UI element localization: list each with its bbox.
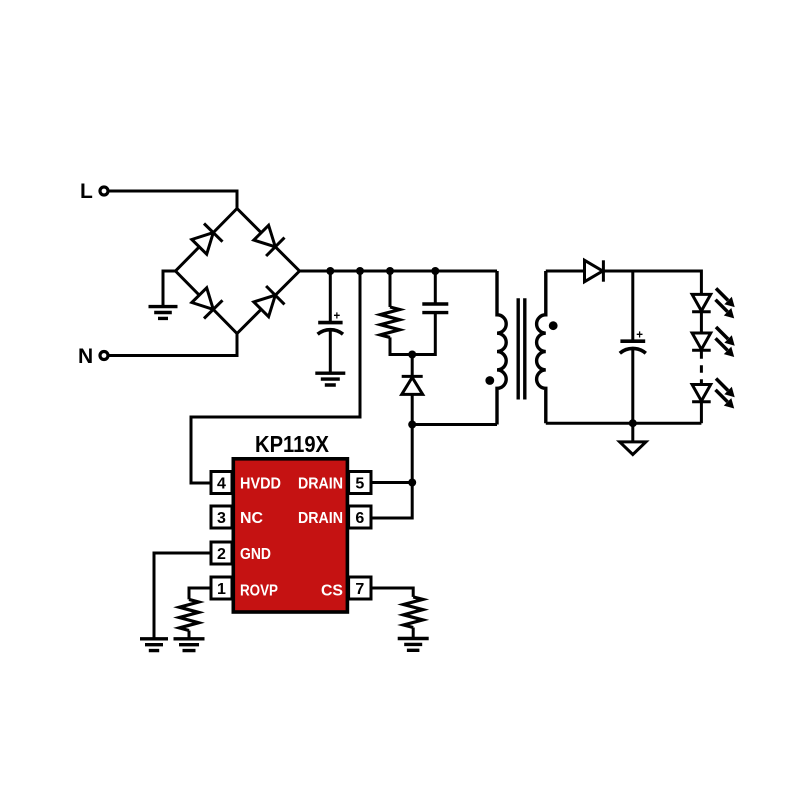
IC pin label DRAIN (right) [298,510,343,527]
wire D5 to drain node [411,394,414,424]
svg-text:L: L [80,180,93,203]
wire R2 to ground [188,631,191,639]
IC U1 title KP119X [255,431,329,457]
IC pin 7 box [349,577,371,599]
wire LED2 to LED3 (dashed) [700,351,703,384]
ground (R3) [398,639,429,651]
svg-text:KP119X: KP119X [255,431,329,457]
bridge rectifier frame wire [176,209,300,334]
ground (output, chassis symbol) [620,423,646,454]
wire secondary to D6 [546,270,585,273]
ground (pin 2) [140,639,168,651]
svg-text:7: 7 [355,581,364,598]
resistor R1 (clamp) [380,307,399,337]
svg-text:NC: NC [240,510,263,527]
wire CS pin 7 to R3 [371,588,413,597]
capacitor C2 (clamp) [422,304,448,313]
terminal N [78,345,108,368]
transformer T1 core [518,298,525,399]
diode D5 (clamp, cathode up) [402,376,423,394]
svg-text:DRAIN: DRAIN [298,475,343,492]
svg-text:5: 5 [355,475,364,492]
wire top rail to C3 [631,271,634,341]
wire drain vertical to pins 5 and 6 [371,425,412,519]
wire rail to R1 [386,267,394,307]
svg-text:DRAIN: DRAIN [298,510,343,527]
wire LED1 to LED2 [700,312,703,333]
svg-text:CS: CS [321,582,343,599]
IC pin 2 box [211,542,232,564]
svg-text:6: 6 [355,510,364,527]
svg-text:GND: GND [240,546,271,563]
IC pin 5 box [349,472,371,494]
node drain [408,421,416,429]
IC pin label CS (right) [321,582,343,599]
node VIN+ : main rail [300,270,498,273]
svg-text:1: 1 [217,581,226,598]
svg-text:+: + [636,330,643,342]
wire N to bridge bottom [109,334,237,356]
diode D2 (bridge upper-right) [254,225,285,256]
IC pin label HVDD [240,475,281,492]
LED3 [692,379,735,409]
IC pin label GND [240,546,271,563]
svg-text:N: N [78,345,93,368]
IC pin 4 box [211,472,232,494]
svg-text:4: 4 [217,475,226,492]
diode D3 (bridge lower-left) [192,288,223,319]
wire rail to C2 [431,267,439,304]
wire clamp node to D5 [411,355,414,378]
wire R3 to ground [412,628,415,639]
ground (C1) [315,373,345,385]
resistor R2 (ROVP) [179,599,198,630]
wire rail to HVDD pin 4 [191,267,364,483]
wire LED3 to bottom rail [700,403,703,424]
node output ground [629,419,637,427]
wire ROVP pin 1 to R2 [189,588,211,599]
capacitor C1 (input bulk, polarized) [318,311,343,335]
wire R1 bottom [390,337,412,354]
wire secondary bottom rail [546,422,702,425]
resistor R3 (CS) [404,597,423,628]
IC pin 6 box [349,506,371,528]
svg-text:3: 3 [217,510,226,527]
IC pin label ROVP [240,582,278,599]
wire C3 to bottom rail [631,350,634,423]
wire pin 5 to drain vertical [371,479,416,487]
svg-text:2: 2 [217,546,226,563]
terminal L [80,180,108,203]
diode D1 (bridge upper-left) [192,224,223,255]
transformer T1 primary dot [485,376,494,385]
wire rail to C1 [326,267,334,323]
wire D6 to LED string top [603,271,701,294]
wire bridge left corner to ground [163,271,176,307]
capacitor C3 (output, polarized) [620,330,646,354]
wire L to bridge top [109,191,237,209]
node clamp junction [408,351,416,359]
IC pin 3 box [211,506,232,528]
wire GND pin 2 to ground [154,553,211,639]
svg-text:ROVP: ROVP [240,582,278,599]
ground (R2) [174,639,205,651]
ground (bridge negative) [149,307,178,319]
transformer T1 secondary dot [549,321,558,330]
diode D6 (output rectifier) [585,260,604,281]
IC pin label NC [240,510,263,527]
svg-text:HVDD: HVDD [240,475,281,492]
transformer T1 secondary winding [537,271,546,423]
wire drain node to transformer primary [412,423,497,426]
wire C2 bottom [412,313,435,355]
IC pin 1 box [211,577,232,599]
LED1 [692,288,735,318]
wire C1 to ground [329,331,332,373]
svg-text:+: + [334,311,341,323]
IC pin label DRAIN (right) [298,475,343,492]
transformer T1 primary winding [497,271,506,425]
op IC U1 KP119X body [233,459,347,612]
diode D4 (bridge lower-right) [254,286,285,317]
LED2 [692,327,735,357]
